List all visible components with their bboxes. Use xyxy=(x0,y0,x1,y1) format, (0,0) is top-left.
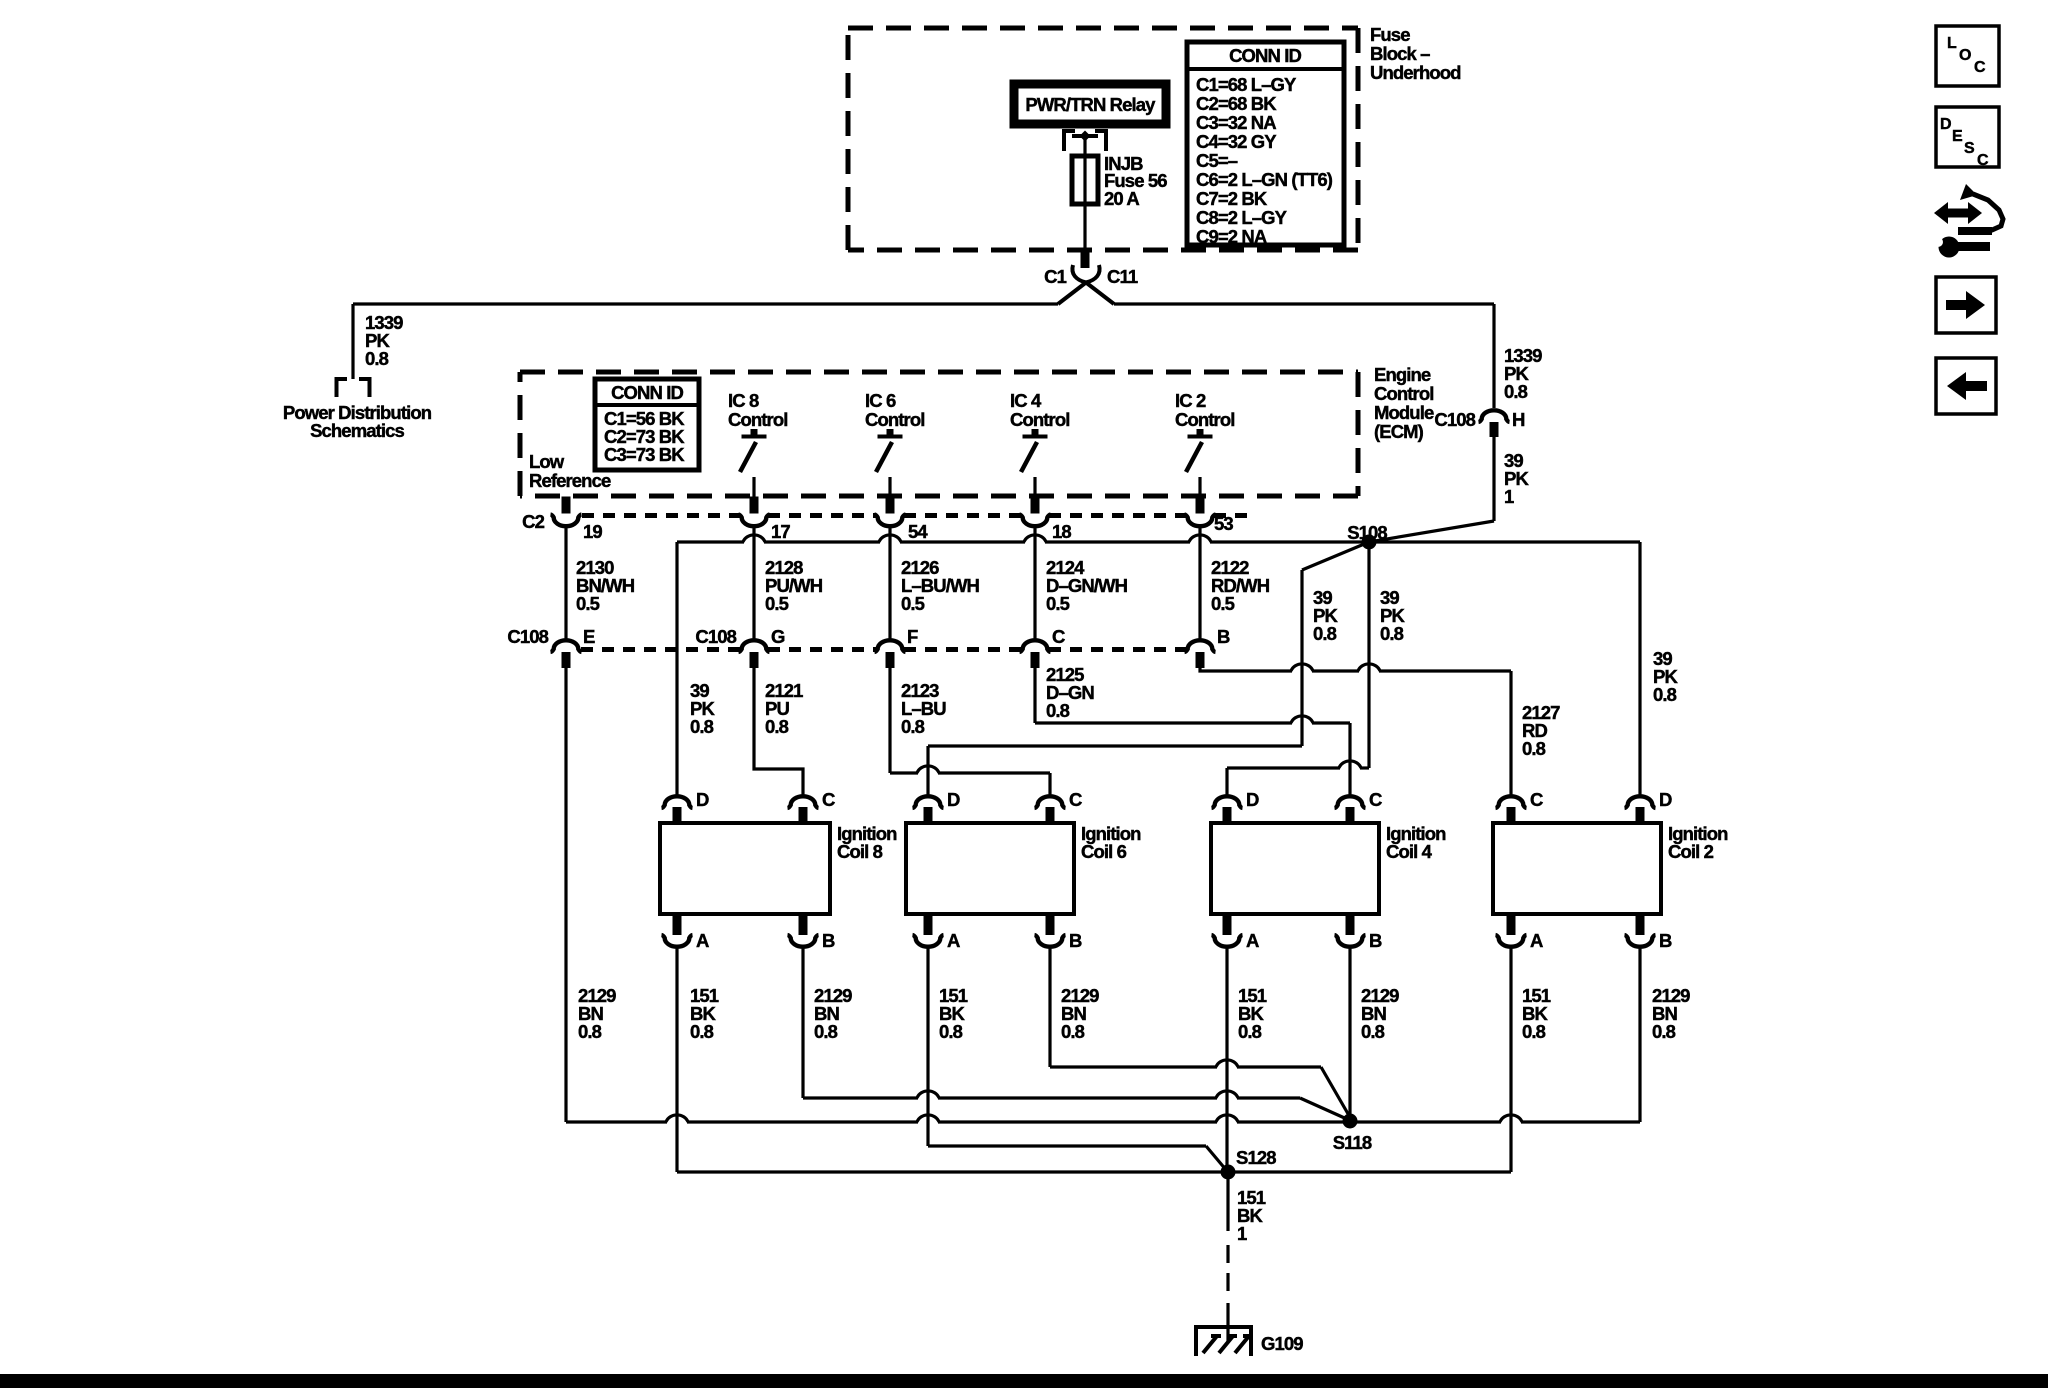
svg-text:Reference: Reference xyxy=(529,470,611,491)
switch IC 4 xyxy=(1021,429,1048,497)
wire coil 6 B to S118 (y 1067) xyxy=(1050,1060,1351,1119)
svg-text:0.8: 0.8 xyxy=(1380,623,1404,644)
connector pin 54 xyxy=(875,497,929,543)
label 39 PK 0.8 (coil 2) xyxy=(1653,648,1678,705)
svg-text:Control: Control xyxy=(1374,383,1433,404)
switch IC 6 xyxy=(876,429,903,497)
svg-text:0.8: 0.8 xyxy=(1653,684,1677,705)
coil 2 pin A xyxy=(1496,914,1544,951)
svg-text:C: C xyxy=(1530,789,1543,810)
wire 1339 PK right horizontal xyxy=(1114,302,1494,305)
svg-text:PWR/TRN Relay: PWR/TRN Relay xyxy=(1025,94,1156,115)
svg-text:Coil 2: Coil 2 xyxy=(1668,841,1714,862)
svg-text:Block –: Block – xyxy=(1370,43,1430,64)
wire 39 PK to coil 2 pin D xyxy=(1638,542,1641,795)
wire 39 PK bus (y 542) xyxy=(677,535,1640,542)
label Low Reference xyxy=(529,451,611,491)
wire 151 BK coil 4 pin A down xyxy=(1225,947,1228,1171)
SECTION: ignition coils xyxy=(660,789,1728,951)
bottom black bar xyxy=(0,1374,2048,1388)
wire 39 PK vertical 1 to coil 6 pin D xyxy=(928,570,1302,795)
wire diagonal into S108 xyxy=(1369,521,1494,542)
svg-text:C1=68 L–GY: C1=68 L–GY xyxy=(1196,74,1297,95)
SECTION: mid wiring xyxy=(507,522,1678,1122)
label 151 BK 0.8 (coil 4 A) xyxy=(1238,985,1267,1042)
ground G109 xyxy=(1196,1325,1303,1356)
svg-text:Control: Control xyxy=(1010,409,1069,430)
label 2123 L-BU 0.8 xyxy=(901,680,946,737)
coil 8 pin C xyxy=(788,789,836,823)
wire 39 PK to coil 8 pin D xyxy=(675,542,678,795)
LOC icon box xyxy=(1936,26,1999,86)
svg-text:S128: S128 xyxy=(1236,1147,1276,1168)
label 151 BK 0.8 (coil 8 A) xyxy=(690,985,719,1042)
svg-text:0.8: 0.8 xyxy=(1313,623,1337,644)
label 1339 PK 0.8 left xyxy=(365,312,403,369)
connector C1 / C11 stub xyxy=(1081,252,1090,268)
svg-text:Coil 8: Coil 8 xyxy=(837,841,883,862)
off-page connector to Power Distribution xyxy=(337,379,370,397)
svg-text:0.8: 0.8 xyxy=(901,716,925,737)
wire 1339 PK left vertical xyxy=(351,304,354,379)
label IC 2 Control xyxy=(1175,390,1234,430)
coil 2 pin C xyxy=(1496,789,1544,823)
ECM dashed box xyxy=(520,372,1358,496)
svg-text:IC 2: IC 2 xyxy=(1175,390,1206,411)
wire 2130 BN/WH pin19 to C108 E xyxy=(564,527,567,639)
wire 2129 BN from C108 E down xyxy=(564,668,567,1122)
label 39 PK 1 xyxy=(1504,450,1529,507)
wire 2123 L-BU from C108 F to coil 6 pin C xyxy=(890,668,1050,795)
switch IC 2 xyxy=(1186,429,1213,497)
connector C108 pin F xyxy=(875,626,919,668)
label 2121 PU 0.8 xyxy=(765,680,803,737)
wire 1339 PK right vertical xyxy=(1492,304,1495,408)
svg-text:C1: C1 xyxy=(1044,266,1066,287)
wire 2128 PU/WH pin17 to C108 G xyxy=(752,527,755,639)
svg-text:0.5: 0.5 xyxy=(901,593,925,614)
svg-text:18: 18 xyxy=(1052,521,1071,542)
splice S128 xyxy=(1221,1147,1277,1180)
right arrow icon box xyxy=(1936,277,1996,333)
svg-text:0.8: 0.8 xyxy=(365,348,389,369)
coil 4 pin B xyxy=(1335,914,1383,951)
label 2125 D-GN 0.8 xyxy=(1046,664,1094,721)
label IC 4 Control xyxy=(1010,390,1069,430)
svg-text:C9=2 NA: C9=2 NA xyxy=(1196,226,1267,247)
label 151 BK 0.8 (coil 6 A) xyxy=(939,985,968,1042)
label Engine Control Module (ECM) xyxy=(1374,364,1434,442)
svg-text:D: D xyxy=(947,789,960,810)
coil 2 pin B xyxy=(1625,914,1673,951)
wire 151 BK 1 below S128 xyxy=(1226,1172,1229,1231)
connector C1 / C11 crossing terminals xyxy=(1044,265,1138,304)
coil 2 pin D xyxy=(1625,789,1673,823)
svg-text:C: C xyxy=(1977,152,1989,169)
wire 151 BK coil 8 pin A down xyxy=(675,947,678,1172)
svg-text:C: C xyxy=(1369,789,1382,810)
svg-text:Coil 4: Coil 4 xyxy=(1386,841,1433,862)
svg-text:B: B xyxy=(1217,626,1230,647)
svg-text:C3=32 NA: C3=32 NA xyxy=(1196,112,1276,133)
svg-text:IC 4: IC 4 xyxy=(1010,390,1042,411)
wire 39 PK 1 below C108 H xyxy=(1492,437,1495,521)
wire 2127 RD from C108 B to coil 2 pin C xyxy=(1200,664,1511,795)
wire 2124 D-GN/WH pin18 to C108 C xyxy=(1033,527,1036,639)
SECTION: ECM xyxy=(520,364,1434,542)
SECTION: fuse block xyxy=(848,24,1461,304)
connector C2 dashed line xyxy=(582,513,1250,518)
left arrow icon box xyxy=(1936,358,1996,414)
coil 6 pin D xyxy=(913,789,961,823)
svg-text:Control: Control xyxy=(865,409,924,430)
wire relay to connector C1 xyxy=(1083,138,1086,252)
connector C2 pin 19 xyxy=(522,497,602,543)
svg-text:CONN ID: CONN ID xyxy=(611,382,683,403)
label 39 PK 0.8 (splice left) xyxy=(1313,587,1338,644)
svg-text:D: D xyxy=(1659,789,1672,810)
fuse block dashed box xyxy=(848,28,1358,250)
svg-text:0.8: 0.8 xyxy=(690,716,714,737)
svg-text:A: A xyxy=(1530,930,1543,951)
svg-text:B: B xyxy=(822,930,835,951)
svg-text:E: E xyxy=(583,626,595,647)
wire 151 BK bus through S128 (y 1172) xyxy=(677,1170,1511,1173)
ignition coil 8 box xyxy=(660,823,897,914)
svg-text:C108: C108 xyxy=(507,626,548,647)
connector C108 pin E xyxy=(507,626,595,668)
label 151 BK 1 xyxy=(1237,1187,1266,1244)
svg-text:0.8: 0.8 xyxy=(1522,1021,1546,1042)
svg-text:IC 8: IC 8 xyxy=(728,390,759,411)
svg-text:0.8: 0.8 xyxy=(1504,381,1528,402)
label IC 6 Control xyxy=(865,390,924,430)
wire coil 8 B to S118 (y 1098) xyxy=(803,1091,1349,1120)
svg-text:0.8: 0.8 xyxy=(690,1021,714,1042)
svg-text:S: S xyxy=(1964,140,1975,157)
svg-text:1: 1 xyxy=(1504,486,1514,507)
svg-text:S108: S108 xyxy=(1347,522,1387,543)
label 151 BK 0.8 (coil 2 A) xyxy=(1522,985,1551,1042)
connector C108 pin H xyxy=(1434,409,1525,437)
svg-text:Engine: Engine xyxy=(1374,364,1431,385)
svg-text:1: 1 xyxy=(1237,1223,1247,1244)
svg-text:C6=2 L–GN (TT6): C6=2 L–GN (TT6) xyxy=(1196,169,1333,190)
CONN ID table (fuse block) xyxy=(1187,42,1344,247)
svg-text:19: 19 xyxy=(583,521,602,542)
svg-text:C3=73 BK: C3=73 BK xyxy=(604,444,685,465)
svg-text:A: A xyxy=(1246,930,1259,951)
svg-text:Low: Low xyxy=(529,451,565,472)
wire 2122 RD/WH pin53 to C108 B xyxy=(1198,527,1201,639)
svg-text:Fuse: Fuse xyxy=(1370,24,1410,45)
label 2130 BN/WH 0.5 xyxy=(576,557,635,614)
SECTION: top feed wires xyxy=(283,304,1542,542)
svg-text:0.8: 0.8 xyxy=(1061,1021,1085,1042)
svg-text:0.8: 0.8 xyxy=(939,1021,963,1042)
SECTION: bottom wiring xyxy=(566,947,1690,1356)
fuse INJB Fuse 56 20 A xyxy=(1072,153,1167,209)
wire 2125 D-GN from C108 C to coil 4 pin C xyxy=(1035,668,1350,795)
svg-text:54: 54 xyxy=(908,521,928,542)
connector C108 dashed line xyxy=(581,647,1186,652)
label 2129 BN 0.8 (coil 4 B) xyxy=(1361,985,1399,1042)
label 2128 PU/WH 0.5 xyxy=(765,557,823,614)
svg-text:C5=–: C5=– xyxy=(1196,150,1238,171)
svg-text:C2=68 BK: C2=68 BK xyxy=(1196,93,1277,114)
label 2124 D-GN/WH 0.5 xyxy=(1046,557,1128,614)
coil 6 pin A xyxy=(913,914,961,951)
connector C108 pin B xyxy=(1185,626,1231,668)
svg-text:B: B xyxy=(1659,930,1672,951)
svg-text:0.5: 0.5 xyxy=(576,593,600,614)
svg-text:0.8: 0.8 xyxy=(578,1021,602,1042)
svg-text:0.8: 0.8 xyxy=(814,1021,838,1042)
svg-text:G: G xyxy=(771,626,785,647)
svg-text:D: D xyxy=(1940,116,1952,133)
splice S118 xyxy=(1333,1114,1372,1154)
label 2129 BN 0.8 (coil 6 B) xyxy=(1061,985,1099,1042)
svg-text:B: B xyxy=(1069,930,1082,951)
svg-text:C: C xyxy=(1974,59,1986,76)
wire into ground xyxy=(1226,1303,1229,1342)
label IC 8 Control xyxy=(728,390,787,430)
wire 1339 PK left horizontal xyxy=(353,302,1058,305)
svg-text:0.5: 0.5 xyxy=(765,593,789,614)
svg-text:O: O xyxy=(1959,47,1971,64)
wire 2129 BN coil 6 pin B down xyxy=(1048,947,1051,1067)
coil 6 pin C xyxy=(1035,789,1083,823)
svg-text:Underhood: Underhood xyxy=(1370,62,1461,83)
svg-text:L: L xyxy=(1947,35,1957,52)
label 2126 L-BU/WH 0.5 xyxy=(901,557,980,614)
svg-text:0.5: 0.5 xyxy=(1046,593,1070,614)
wire 151 BK coil 6 pin A down xyxy=(926,947,929,1146)
wire 2121 PU from C108 G to coil 8 pin C xyxy=(754,668,803,795)
svg-text:C108: C108 xyxy=(695,626,736,647)
label 2127 RD 0.8 xyxy=(1522,702,1560,759)
label 2129 BN 0.8 (coil 8 B) xyxy=(814,985,852,1042)
svg-text:Coil 6: Coil 6 xyxy=(1081,841,1127,862)
connector pin 18 xyxy=(1020,497,1072,543)
svg-text:0.8: 0.8 xyxy=(765,716,789,737)
coil 8 pin D xyxy=(662,789,710,823)
svg-text:0.8: 0.8 xyxy=(1522,738,1546,759)
coil 4 pin A xyxy=(1212,914,1260,951)
wire S108 diagonal to 39 PK vertical xyxy=(1302,542,1369,570)
svg-text:(ECM): (ECM) xyxy=(1374,421,1424,442)
label 2122 RD/WH 0.5 xyxy=(1211,557,1270,614)
DESC icon box xyxy=(1936,107,1999,169)
wire 2129 BN coil 2 pin B down xyxy=(1638,947,1641,1122)
wire dashed to ground xyxy=(1226,1245,1229,1297)
coil 8 pin A xyxy=(662,914,710,951)
wire 2129 BN coil 4 pin B down xyxy=(1348,947,1351,1120)
svg-text:C108: C108 xyxy=(1434,409,1475,430)
connector C108 pin G xyxy=(695,626,785,668)
svg-text:C: C xyxy=(822,789,835,810)
relay PWR/TRN Relay xyxy=(1014,84,1166,124)
relay output terminal brackets xyxy=(1064,131,1106,152)
svg-text:D: D xyxy=(1246,789,1259,810)
switch IC 8 xyxy=(740,429,767,497)
connector pin 17 xyxy=(739,497,791,543)
wire 2129 BN bus through S118 (y 1122) xyxy=(566,1115,1640,1122)
svg-text:0.5: 0.5 xyxy=(1211,593,1235,614)
svg-text:C: C xyxy=(1069,789,1082,810)
label Power Distribution Schematics xyxy=(283,402,432,441)
coil 6 pin B xyxy=(1035,914,1083,951)
label 2129 BN 0.8 (C108 E) xyxy=(578,985,616,1042)
coil 4 pin C xyxy=(1335,789,1383,823)
splice S108 xyxy=(1347,522,1387,550)
connector pin 53 xyxy=(1185,497,1234,535)
wire 2126 L-BU/WH pin54 to C108 F xyxy=(888,527,891,639)
label 39 PK 0.8 (coil 8) xyxy=(690,680,715,737)
ignition coil 4 box xyxy=(1211,823,1446,914)
svg-text:S118: S118 xyxy=(1333,1132,1372,1153)
wire 39 PK vertical 2 to coil 4 pin D xyxy=(1227,549,1369,795)
coil 4 pin D xyxy=(1212,789,1260,823)
svg-text:C7=2 BK: C7=2 BK xyxy=(1196,188,1268,209)
svg-text:G109: G109 xyxy=(1261,1333,1303,1354)
CONN ID table (ECM) xyxy=(595,379,699,470)
svg-text:A: A xyxy=(696,930,709,951)
svg-text:C: C xyxy=(1052,626,1065,647)
label Fuse Block - Underhood xyxy=(1370,24,1461,83)
svg-text:B: B xyxy=(1369,930,1382,951)
svg-text:20 A: 20 A xyxy=(1104,188,1139,209)
connector C108 pin C xyxy=(1020,626,1066,668)
svg-text:A: A xyxy=(947,930,960,951)
svg-text:CONN ID: CONN ID xyxy=(1229,45,1301,66)
wire 2129 BN coil 8 pin B down xyxy=(801,947,804,1098)
svg-text:Schematics: Schematics xyxy=(310,420,404,441)
svg-text:0.8: 0.8 xyxy=(1652,1021,1676,1042)
coil 8 pin B xyxy=(788,914,836,951)
label 1339 PK 0.8 right xyxy=(1504,345,1542,402)
svg-text:IC 6: IC 6 xyxy=(865,390,896,411)
label 2129 BN 0.8 (coil 2 B) xyxy=(1652,985,1690,1042)
svg-text:0.8: 0.8 xyxy=(1238,1021,1262,1042)
svg-text:C2: C2 xyxy=(522,511,544,532)
svg-text:C11: C11 xyxy=(1107,266,1138,287)
svg-text:17: 17 xyxy=(771,521,790,542)
svg-text:Module: Module xyxy=(1374,402,1434,423)
ignition coil 2 box xyxy=(1493,823,1728,914)
label 39 PK 0.8 (splice right) xyxy=(1380,587,1405,644)
svg-text:0.8: 0.8 xyxy=(1361,1021,1385,1042)
svg-text:E: E xyxy=(1952,128,1963,145)
svg-text:53: 53 xyxy=(1214,513,1233,534)
svg-text:F: F xyxy=(907,626,918,647)
wrench and arrows icon xyxy=(1933,184,2003,258)
svg-text:C4=32 GY: C4=32 GY xyxy=(1196,131,1277,152)
svg-text:H: H xyxy=(1512,409,1525,430)
svg-text:0.8: 0.8 xyxy=(1046,700,1070,721)
wire 151 BK coil 2 pin A down xyxy=(1509,947,1512,1172)
ignition coil 6 box xyxy=(906,823,1141,914)
wire coil 6 A to S128 (y 1146) xyxy=(928,1146,1227,1171)
svg-text:D: D xyxy=(696,789,709,810)
svg-text:Control: Control xyxy=(1175,409,1234,430)
svg-text:Control: Control xyxy=(728,409,787,430)
svg-text:C8=2 L–GY: C8=2 L–GY xyxy=(1196,207,1288,228)
SECTION: right side icons xyxy=(1933,26,2003,414)
